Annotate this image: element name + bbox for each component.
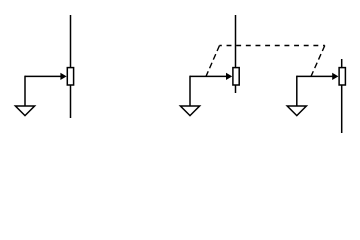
ground symbol G3: [287, 106, 306, 116]
P2 wiper arrowhead: [226, 73, 232, 80]
P1 wiper arrowhead: [60, 73, 66, 80]
potentiometer P1 body lead (vertical): [70, 15, 72, 118]
potentiometer P1 body rectangle: [67, 68, 73, 85]
ganged coupling dashed link: left diagonal: [206, 46, 220, 77]
P1 wiper wire: [25, 75, 62, 77]
P3 wiper arrowhead: [332, 73, 338, 80]
potentiometer P2 body rectangle: [233, 68, 239, 85]
potentiometer P2 body lead (vertical): [235, 15, 237, 93]
ganged coupling dashed link: right diagonal: [311, 46, 325, 77]
P3 ground drop wire: [296, 76, 298, 106]
ground symbol G1: [15, 106, 34, 116]
P2 wiper wire: [190, 75, 227, 77]
potentiometer P3 body lead (vertical): [341, 59, 343, 133]
P1 ground drop wire: [24, 76, 26, 106]
P2 ground drop wire: [189, 76, 191, 106]
potentiometer P3 body rectangle: [339, 68, 345, 85]
ground symbol G2: [180, 106, 199, 116]
P3 wiper wire: [297, 75, 333, 77]
ganged coupling dashed link: horizontal run: [220, 45, 325, 47]
